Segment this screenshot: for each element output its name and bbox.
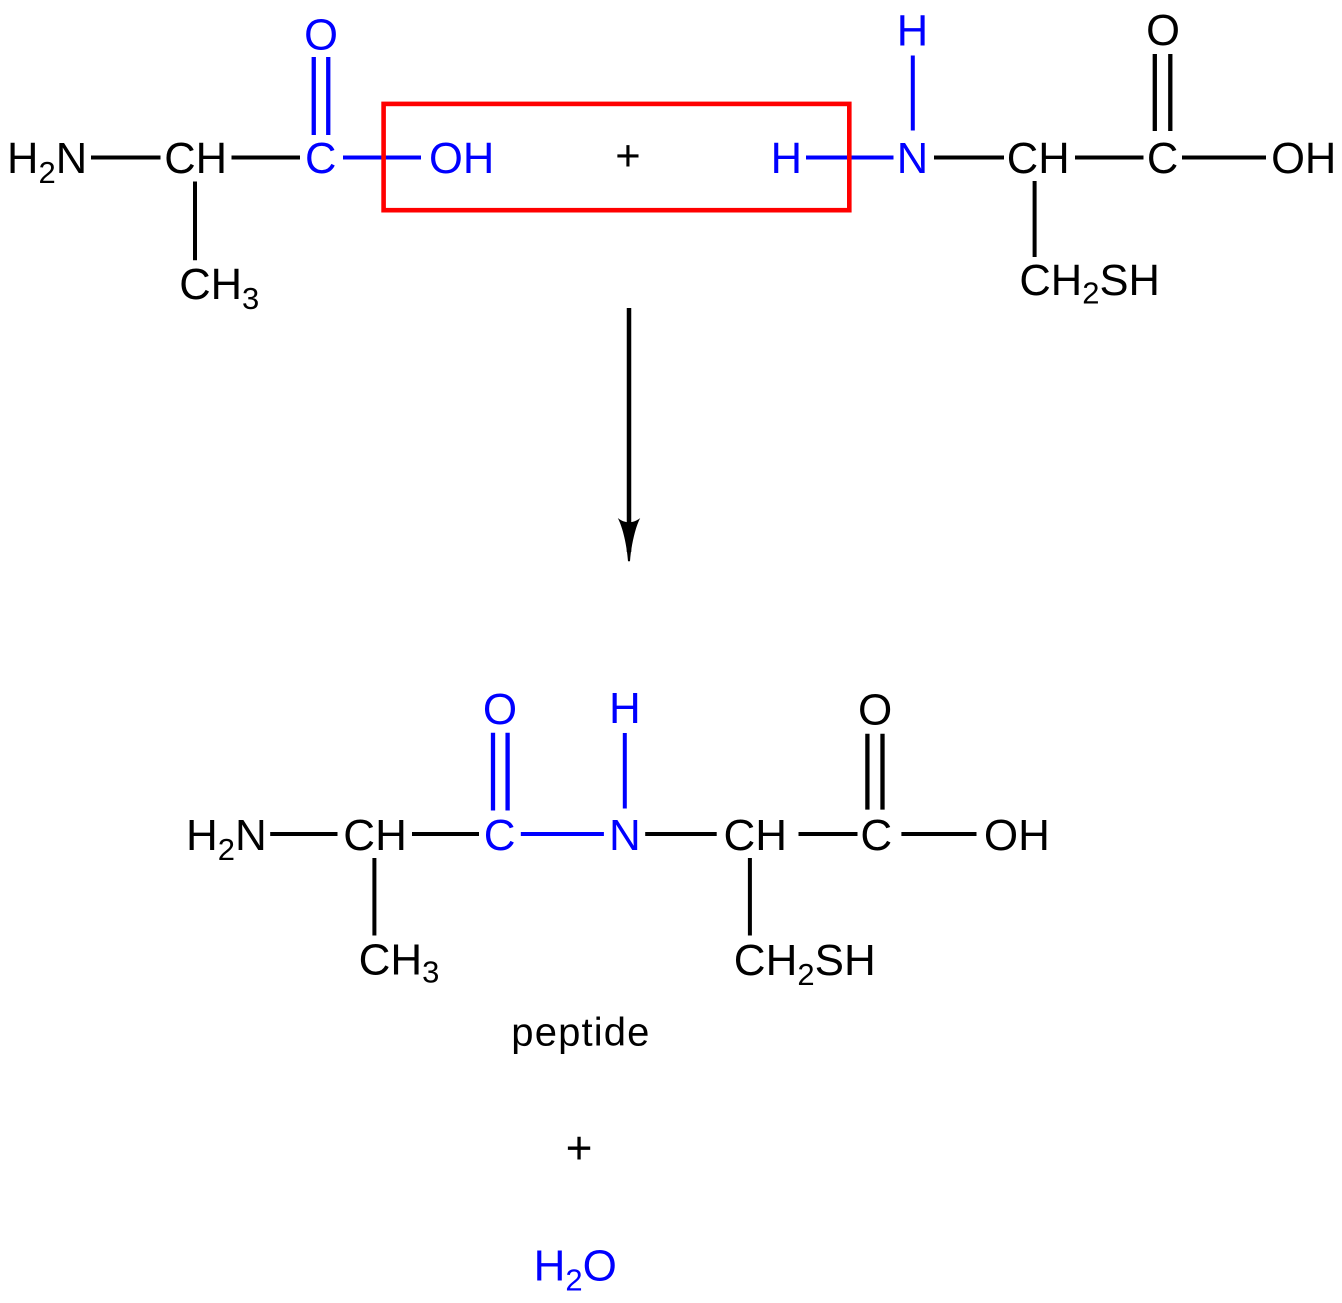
svg-text:H: H bbox=[771, 135, 802, 183]
svg-text:N: N bbox=[897, 135, 928, 183]
svg-text:O: O bbox=[1146, 7, 1180, 55]
svg-text:O: O bbox=[483, 685, 517, 734]
svg-text:C: C bbox=[484, 811, 516, 860]
svg-text:N: N bbox=[609, 811, 641, 860]
svg-text:O: O bbox=[304, 12, 338, 60]
svg-text:CH: CH bbox=[343, 811, 407, 860]
svg-text:OH: OH bbox=[429, 135, 494, 183]
svg-text:CH: CH bbox=[164, 135, 227, 183]
svg-text:OH: OH bbox=[984, 811, 1050, 860]
svg-text:C: C bbox=[860, 811, 892, 860]
svg-text:OH: OH bbox=[1271, 135, 1336, 183]
svg-text:+: + bbox=[566, 1122, 593, 1174]
svg-text:H: H bbox=[897, 8, 928, 56]
svg-text:H: H bbox=[609, 684, 641, 733]
svg-text:+: + bbox=[615, 133, 640, 181]
svg-text:CH: CH bbox=[724, 811, 788, 860]
svg-text:C: C bbox=[305, 135, 336, 183]
svg-text:CH: CH bbox=[1007, 135, 1070, 183]
svg-text:C: C bbox=[1147, 135, 1178, 183]
svg-text:O: O bbox=[858, 685, 892, 734]
